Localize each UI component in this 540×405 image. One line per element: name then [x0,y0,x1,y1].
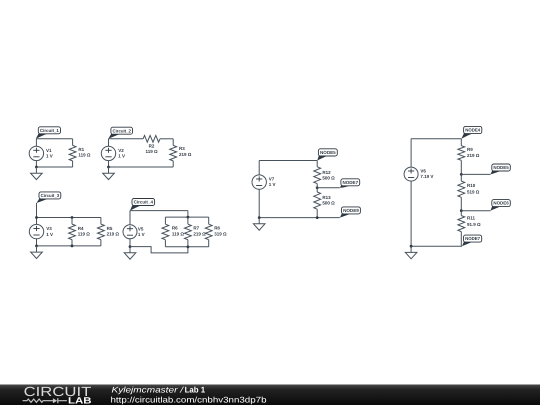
wire source-bottom stub V2 [108,161,110,167]
svg-text:R7: R7 [193,226,199,231]
wire source-top stub V2 [108,139,110,146]
junction dot middle bottom-left [258,216,261,219]
svg-text:119 Ω: 119 Ω [145,149,158,154]
resistor R10 [460,174,462,181]
voltage source V6 [404,167,418,181]
node label NODE7 right [462,241,474,246]
junction dot Circuit_2 [107,166,110,169]
wire bottom Circuit_3 [37,245,101,247]
svg-text:NODE4: NODE4 [465,128,481,133]
svg-text:219 Ω: 219 Ω [193,231,206,236]
svg-text:1 V: 1 V [269,182,276,187]
resistor R7 [187,217,189,224]
ground Circuit_1 [35,167,37,173]
wire tap NODE5 right [461,173,490,175]
svg-text:119 Ω: 119 Ω [172,231,185,236]
wire top middle [259,160,317,162]
wire source-bottom stub V1 [35,161,37,167]
svg-text:R2: R2 [149,144,155,149]
wire source-top stub V6 [410,139,412,167]
svg-text:V7: V7 [269,176,275,181]
node label NODE5 middle [317,155,329,160]
junction dot Circuit_3 bottom-left [35,245,38,248]
ground Circuit_3 [36,246,38,252]
junction dot Circuit_3 top-mid [71,216,74,219]
wire source-top stub V5 [129,211,131,225]
junction dot Circuit_1 [35,166,38,169]
svg-text:R10: R10 [467,183,476,188]
junction dot right bottom [410,245,413,248]
wire bottom rail Circuit_4 [165,246,208,248]
svg-text:7.19 V: 7.19 V [420,174,433,179]
svg-text:NODE6: NODE6 [493,201,509,206]
footer bar [0,385,540,405]
svg-text:119 Ω: 119 Ω [78,153,91,158]
wire source-top stub V1 [35,139,37,146]
svg-text:219 Ω: 219 Ω [467,153,480,158]
svg-text:R13: R13 [322,195,331,200]
voltage source V5 [123,225,137,239]
ground Circuit_4 [129,247,131,253]
node label Circuit_1 [36,133,49,139]
junction dot Circuit_3 top-left [35,216,38,219]
svg-text:500 Ω: 500 Ω [322,176,335,181]
svg-text:R11: R11 [467,215,476,220]
svg-text:1 V: 1 V [138,232,145,237]
svg-text:219 Ω: 219 Ω [179,152,192,157]
resistor R9 [460,139,462,146]
logo diode arrow [53,398,57,403]
wire top right [411,138,461,140]
voltage source V2 [101,146,115,160]
svg-text:R6: R6 [172,226,178,231]
svg-text:R12: R12 [322,170,331,175]
wire top Circuit_4 [130,210,188,212]
ground right [410,246,412,252]
svg-text:519 Ω: 519 Ω [467,189,480,194]
svg-text:Circuit_4: Circuit_4 [134,200,154,205]
svg-text:Lab 1: Lab 1 [185,385,206,394]
svg-text:1 V: 1 V [46,154,53,159]
resistor R2 [143,135,160,142]
resistor R3 [172,139,174,146]
resistor R11 [460,211,462,216]
svg-text:LAB: LAB [68,396,92,405]
junction dot middle bottom-mid [316,216,319,219]
svg-text:Kylejmcmaster /: Kylejmcmaster / [112,385,184,394]
voltage source V3 [29,224,43,238]
resistor R5 [100,218,102,225]
svg-text:NODE7: NODE7 [465,236,481,241]
wire bottom Circuit_1 [36,166,72,168]
svg-text:V1: V1 [46,148,52,153]
svg-text:NODE7: NODE7 [343,180,359,185]
wire source-bottom stub V5 [129,239,131,247]
svg-text:V2: V2 [118,148,124,153]
wire top Circuit_1 [36,138,72,140]
svg-text:319 Ω: 319 Ω [214,231,227,236]
svg-text:219 Ω: 219 Ω [107,231,120,236]
resistor R8 [208,217,210,224]
wire source-bottom stub V6 [410,181,412,246]
svg-text:Circuit_3: Circuit_3 [41,193,60,198]
ground Circuit_2 [108,167,110,173]
junction dot right 1 [460,173,463,176]
junction dot right 2 [460,209,463,212]
wire top-right Circuit_2 [160,138,173,140]
svg-text:91.9 Ω: 91.9 Ω [467,222,481,227]
wire bottom right [411,245,462,247]
wire bottom Circuit_2 [109,166,174,168]
resistor R6 [164,217,166,224]
svg-text:NODE5: NODE5 [493,165,509,170]
node label NODE7 middle [340,185,352,188]
node label Circuit_4 [130,205,143,211]
wire source-top stub V7 [258,161,260,175]
resistor R4 [71,218,73,225]
voltage source V1 [29,146,43,160]
resistor R13 [316,188,318,192]
svg-text:R9: R9 [467,147,473,152]
svg-text:V5: V5 [138,226,144,231]
svg-text:http://circuitlab.com/cnbhv3nn: http://circuitlab.com/cnbhv3nn3dp7b [111,395,268,404]
voltage source V7 [252,175,266,189]
wire bottom middle [259,217,340,219]
svg-text:1 V: 1 V [118,154,125,159]
svg-text:R8: R8 [214,226,220,231]
wire mid tap middle [317,187,340,189]
ground middle [258,218,260,224]
svg-text:1 V: 1 V [46,232,53,237]
node label NODE4 [461,133,474,139]
wire top drop Circuit_4 [187,211,189,218]
svg-text:500 Ω: 500 Ω [322,201,335,206]
node label NODE6 [490,206,502,211]
wire source-bottom stub V7 [258,189,260,217]
node label NODE5 right [490,170,502,174]
node label Circuit_2 [108,133,121,138]
wire source-bottom stub V3 [36,239,38,246]
svg-text:Circuit_2: Circuit_2 [113,128,132,133]
svg-text:119 Ω: 119 Ω [78,231,91,236]
junction dot rail bottom [187,245,190,248]
svg-text:Circuit_1: Circuit_1 [40,128,60,133]
svg-text:R5: R5 [107,226,113,231]
svg-text:R4: R4 [78,226,84,231]
resistor R12 [316,161,318,167]
junction dot V5 bottom [129,245,132,248]
node label NODE9 middle [340,213,352,218]
svg-text:NODE5: NODE5 [320,150,336,155]
svg-text:NODE9: NODE9 [343,208,359,213]
svg-text:V6: V6 [420,169,426,174]
svg-text:V3: V3 [46,226,52,231]
wire top rail Circuit_4 [165,216,208,218]
node label Circuit_3 [37,198,50,203]
logo resistor squiggle [23,399,53,402]
wire top Circuit_3 [37,217,101,219]
resistor R1 [72,139,74,146]
wire top-left Circuit_2 [109,138,144,140]
junction dot rail top [187,216,190,219]
svg-text:R1: R1 [78,147,84,152]
junction dot Circuit_3 bottom-mid [71,245,74,248]
svg-text:R3: R3 [179,146,185,151]
wire tap NODE6 right [461,210,490,212]
junction dot middle mid [316,186,319,189]
wire bottom dogleg Circuit_4 [130,247,188,253]
wire label stem Circuit_3 [36,203,38,224]
